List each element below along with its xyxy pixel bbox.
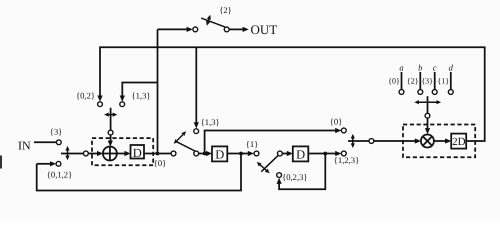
wire stem b — [419, 72, 421, 90]
wire D2 output to contact {1} — [227, 153, 248, 155]
connector node above multiplier — [425, 113, 430, 118]
node J3 — [239, 152, 243, 156]
connector node on right line — [369, 139, 374, 144]
wire arrow into adder top — [110, 135, 112, 142]
contact {1,2,3} — [341, 151, 346, 156]
wire inner feedback loop into {0,2,3} — [279, 154, 325, 190]
svg-text:c: c — [433, 63, 437, 73]
wire S7 stem — [427, 96, 429, 113]
contact a — [399, 90, 404, 95]
contact {3} — [56, 140, 61, 145]
wire D3 output to contact {1,2,3} — [308, 153, 336, 155]
contact c — [432, 90, 437, 95]
contact S1 output — [224, 27, 229, 32]
adder A1 — [103, 147, 117, 161]
wire stem c — [434, 72, 436, 90]
wire top feedback: 2D output right edge, top line, down into contact {0,2} — [100, 47, 485, 141]
contact {1,3} of selector S5 — [120, 102, 125, 107]
connector node on main line — [84, 151, 89, 156]
contact b — [418, 90, 423, 95]
svg-text:{3}: {3} — [421, 77, 433, 86]
wire OUT branch horizontal with arrow — [158, 28, 188, 30]
node J4 — [323, 152, 327, 156]
svg-text:OUT: OUT — [251, 22, 278, 37]
wire arrow into contact {0,1,2} — [37, 163, 51, 165]
svg-text:d: d — [449, 63, 454, 73]
contact S3 pivot — [278, 151, 283, 156]
contact S1 input — [193, 27, 198, 32]
contact {0,2} of selector S5 — [98, 102, 103, 107]
wire D1 output to switch contact — [144, 153, 171, 155]
switch S7 wiper double-arrow (coefficient selector) — [418, 101, 437, 103]
switch S1 double-arrow — [208, 18, 209, 22]
node J1 — [156, 152, 160, 156]
dashed box B1 — [92, 138, 153, 165]
svg-text:{1}: {1} — [437, 77, 449, 86]
svg-text:D: D — [296, 147, 305, 161]
delay 2D — [451, 134, 466, 149]
wire arrow into multiplier top — [427, 118, 429, 129]
wire right selector output into multiplier — [348, 140, 416, 142]
node J2 — [203, 152, 207, 156]
contact {0} right — [341, 128, 346, 133]
svg-text:{1,2,3}: {1,2,3} — [334, 155, 359, 165]
wire adder to delay D1 — [117, 153, 126, 155]
switch S1 arm — [201, 18, 225, 27]
wire stem d — [450, 72, 452, 90]
contact d — [448, 90, 453, 95]
svg-text:{0,1,2}: {0,1,2} — [47, 170, 72, 180]
contact S2 pivot — [194, 151, 199, 156]
multiplier M1 — [421, 135, 434, 148]
wire branch J2 up and right to contact {0} — [205, 131, 336, 154]
wire pivot to delay D3 — [282, 153, 287, 155]
svg-text:{1,3}: {1,3} — [201, 117, 220, 127]
wire outer feedback loop — [37, 154, 241, 191]
switch S3 double-arrow — [260, 165, 267, 171]
contact S3 bottom {0,2,3} — [277, 173, 282, 178]
svg-text:{2}: {2} — [407, 77, 419, 86]
svg-text:{0,2}: {0,2} — [76, 91, 95, 101]
wire main line into adder — [61, 153, 99, 155]
switch S4 wiper double-arrow (input selector) — [67, 150, 69, 157]
wire from top line down into contact {1,3} of S2 — [195, 47, 197, 124]
svg-text:{0}: {0} — [388, 77, 400, 86]
svg-text:{0}: {0} — [154, 158, 167, 168]
svg-text:b: b — [418, 63, 422, 73]
svg-text:{3}: {3} — [50, 126, 63, 136]
wire vertical J1 up to OUT branch — [157, 29, 159, 153]
wire multiplier to 2D — [434, 140, 446, 142]
svg-text:{1}: {1} — [246, 139, 259, 149]
wire pivot to delay D2 — [199, 153, 207, 155]
svg-text:{2}: {2} — [219, 5, 232, 15]
wire IN to contact {3} — [34, 141, 56, 143]
svg-text:a: a — [399, 63, 403, 73]
contact S2 left — [171, 151, 176, 156]
wire branch y82 from J1 vertical to contact {1,3} — [122, 83, 157, 98]
contact S2 top — [194, 129, 199, 134]
wire arrow to OUT — [229, 28, 243, 30]
svg-text:{1,3}: {1,3} — [132, 91, 151, 101]
delay D3 — [293, 146, 309, 161]
connector node above adder — [108, 130, 113, 135]
contact S3 left {1} — [254, 151, 259, 156]
switch S5 wiper double-arrow — [108, 114, 113, 116]
switch S6 wiper double-arrow (right selector) — [352, 138, 354, 144]
wire S5 stem down to adder — [110, 108, 112, 130]
svg-text:{0,2,3}: {0,2,3} — [282, 172, 307, 182]
contact {0,1,2} — [56, 161, 61, 166]
delay D1 — [131, 145, 145, 159]
switch S2 double-arrow — [177, 135, 183, 141]
switch S2 arm — [176, 142, 196, 152]
svg-text:{0}: {0} — [330, 117, 343, 127]
svg-text:2D: 2D — [452, 136, 466, 148]
svg-text:D: D — [133, 146, 142, 160]
wire stem a — [401, 72, 403, 90]
svg-text:D: D — [215, 147, 224, 161]
svg-text:IN: IN — [18, 139, 31, 153]
switch S3 arm — [261, 155, 278, 172]
delay D2 — [212, 146, 227, 161]
scan smudge left edge — [0, 156, 2, 169]
dashed box B2 — [403, 125, 475, 158]
